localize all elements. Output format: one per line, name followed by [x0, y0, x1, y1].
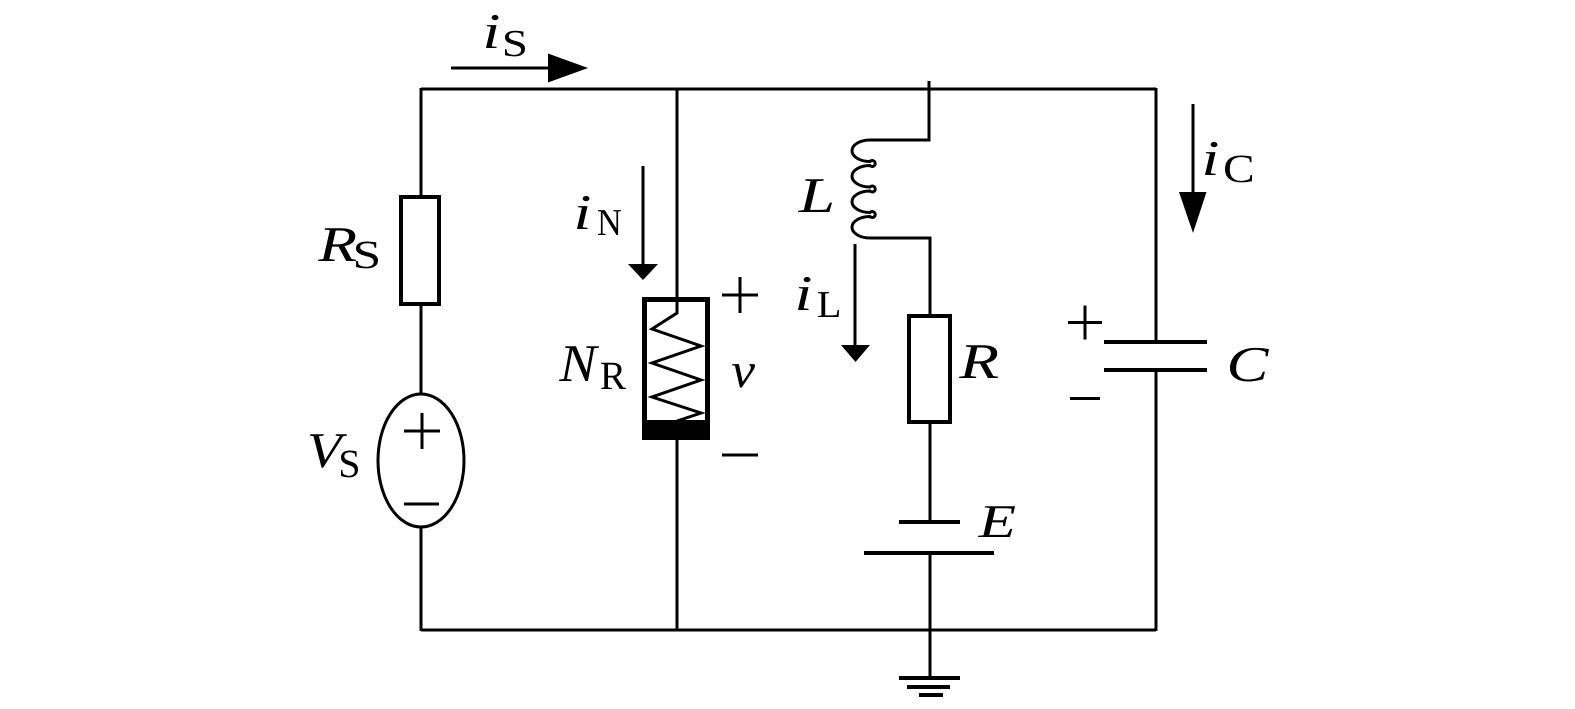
plus sign inside VS [404, 413, 440, 449]
resistor R [909, 316, 950, 422]
label iN [577, 196, 621, 235]
wire left rail upper [420, 88, 423, 197]
node junction stub at inductor branch [928, 81, 931, 89]
wire bottom rail [421, 629, 1156, 632]
ground symbol [899, 678, 960, 695]
label iS [486, 15, 525, 57]
battery E short plate [899, 520, 960, 524]
minus sign at capacitor [1070, 397, 1100, 400]
label VS [310, 434, 358, 477]
plus sign at capacitor [1068, 306, 1102, 340]
capacitor C top plate [1104, 340, 1207, 344]
label C [1230, 348, 1269, 382]
battery E long plate [864, 551, 994, 555]
wire R to battery [929, 422, 932, 522]
wire inductor branch top [870, 88, 929, 140]
wire top rail [421, 88, 1156, 91]
wire RS to VS [420, 304, 423, 395]
nonlinear resistor NR zigzag [652, 299, 701, 421]
nonlinear resistor NR black base [642, 420, 710, 440]
wire battery to ground [929, 553, 932, 678]
wire VS to bottom rail [420, 527, 423, 631]
label NR [559, 346, 626, 389]
capacitor C bottom plate [1104, 368, 1207, 372]
nonlinear resistor NR box [645, 300, 708, 438]
current arrow iL [841, 244, 870, 362]
plus sign at NR [722, 277, 758, 313]
label L [798, 179, 832, 212]
voltage source VS [378, 394, 464, 527]
label RS [318, 228, 378, 268]
minus sign inside VS [404, 503, 439, 506]
wire inductor to R [870, 238, 930, 316]
label E [978, 506, 1015, 537]
current arrow iN [628, 166, 658, 280]
label v [732, 364, 755, 387]
wire right rail upper [1155, 88, 1158, 342]
label R [959, 345, 998, 378]
label iC [1205, 142, 1252, 183]
inductor L coil [852, 140, 875, 238]
label iL [798, 277, 839, 317]
wire NR branch upper [676, 89, 679, 299]
resistor RS [401, 197, 439, 304]
minus sign at NR [722, 454, 758, 457]
wire NR to bottom rail [676, 438, 679, 631]
current arrow iS [451, 54, 588, 83]
current arrow iC [1179, 104, 1207, 233]
wire right rail lower [1155, 370, 1158, 631]
